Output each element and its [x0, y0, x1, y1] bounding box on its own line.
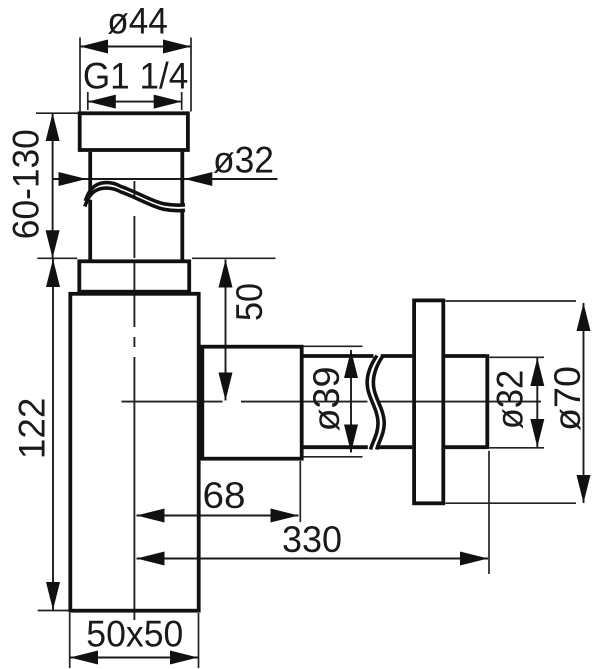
svg-text:122: 122 [12, 398, 53, 460]
svg-text:ø44: ø44 [107, 1, 168, 42]
svg-text:60-130: 60-130 [6, 129, 47, 239]
svg-text:ø32: ø32 [213, 140, 274, 181]
svg-text:ø32: ø32 [490, 370, 531, 430]
svg-text:50: 50 [229, 283, 270, 321]
svg-text:ø70: ø70 [547, 366, 588, 431]
svg-text:330: 330 [282, 519, 342, 560]
svg-text:50x50: 50x50 [86, 614, 183, 655]
svg-text:ø39: ø39 [306, 367, 347, 432]
svg-text:68: 68 [203, 475, 246, 516]
svg-text:G1 1/4: G1 1/4 [83, 56, 189, 97]
